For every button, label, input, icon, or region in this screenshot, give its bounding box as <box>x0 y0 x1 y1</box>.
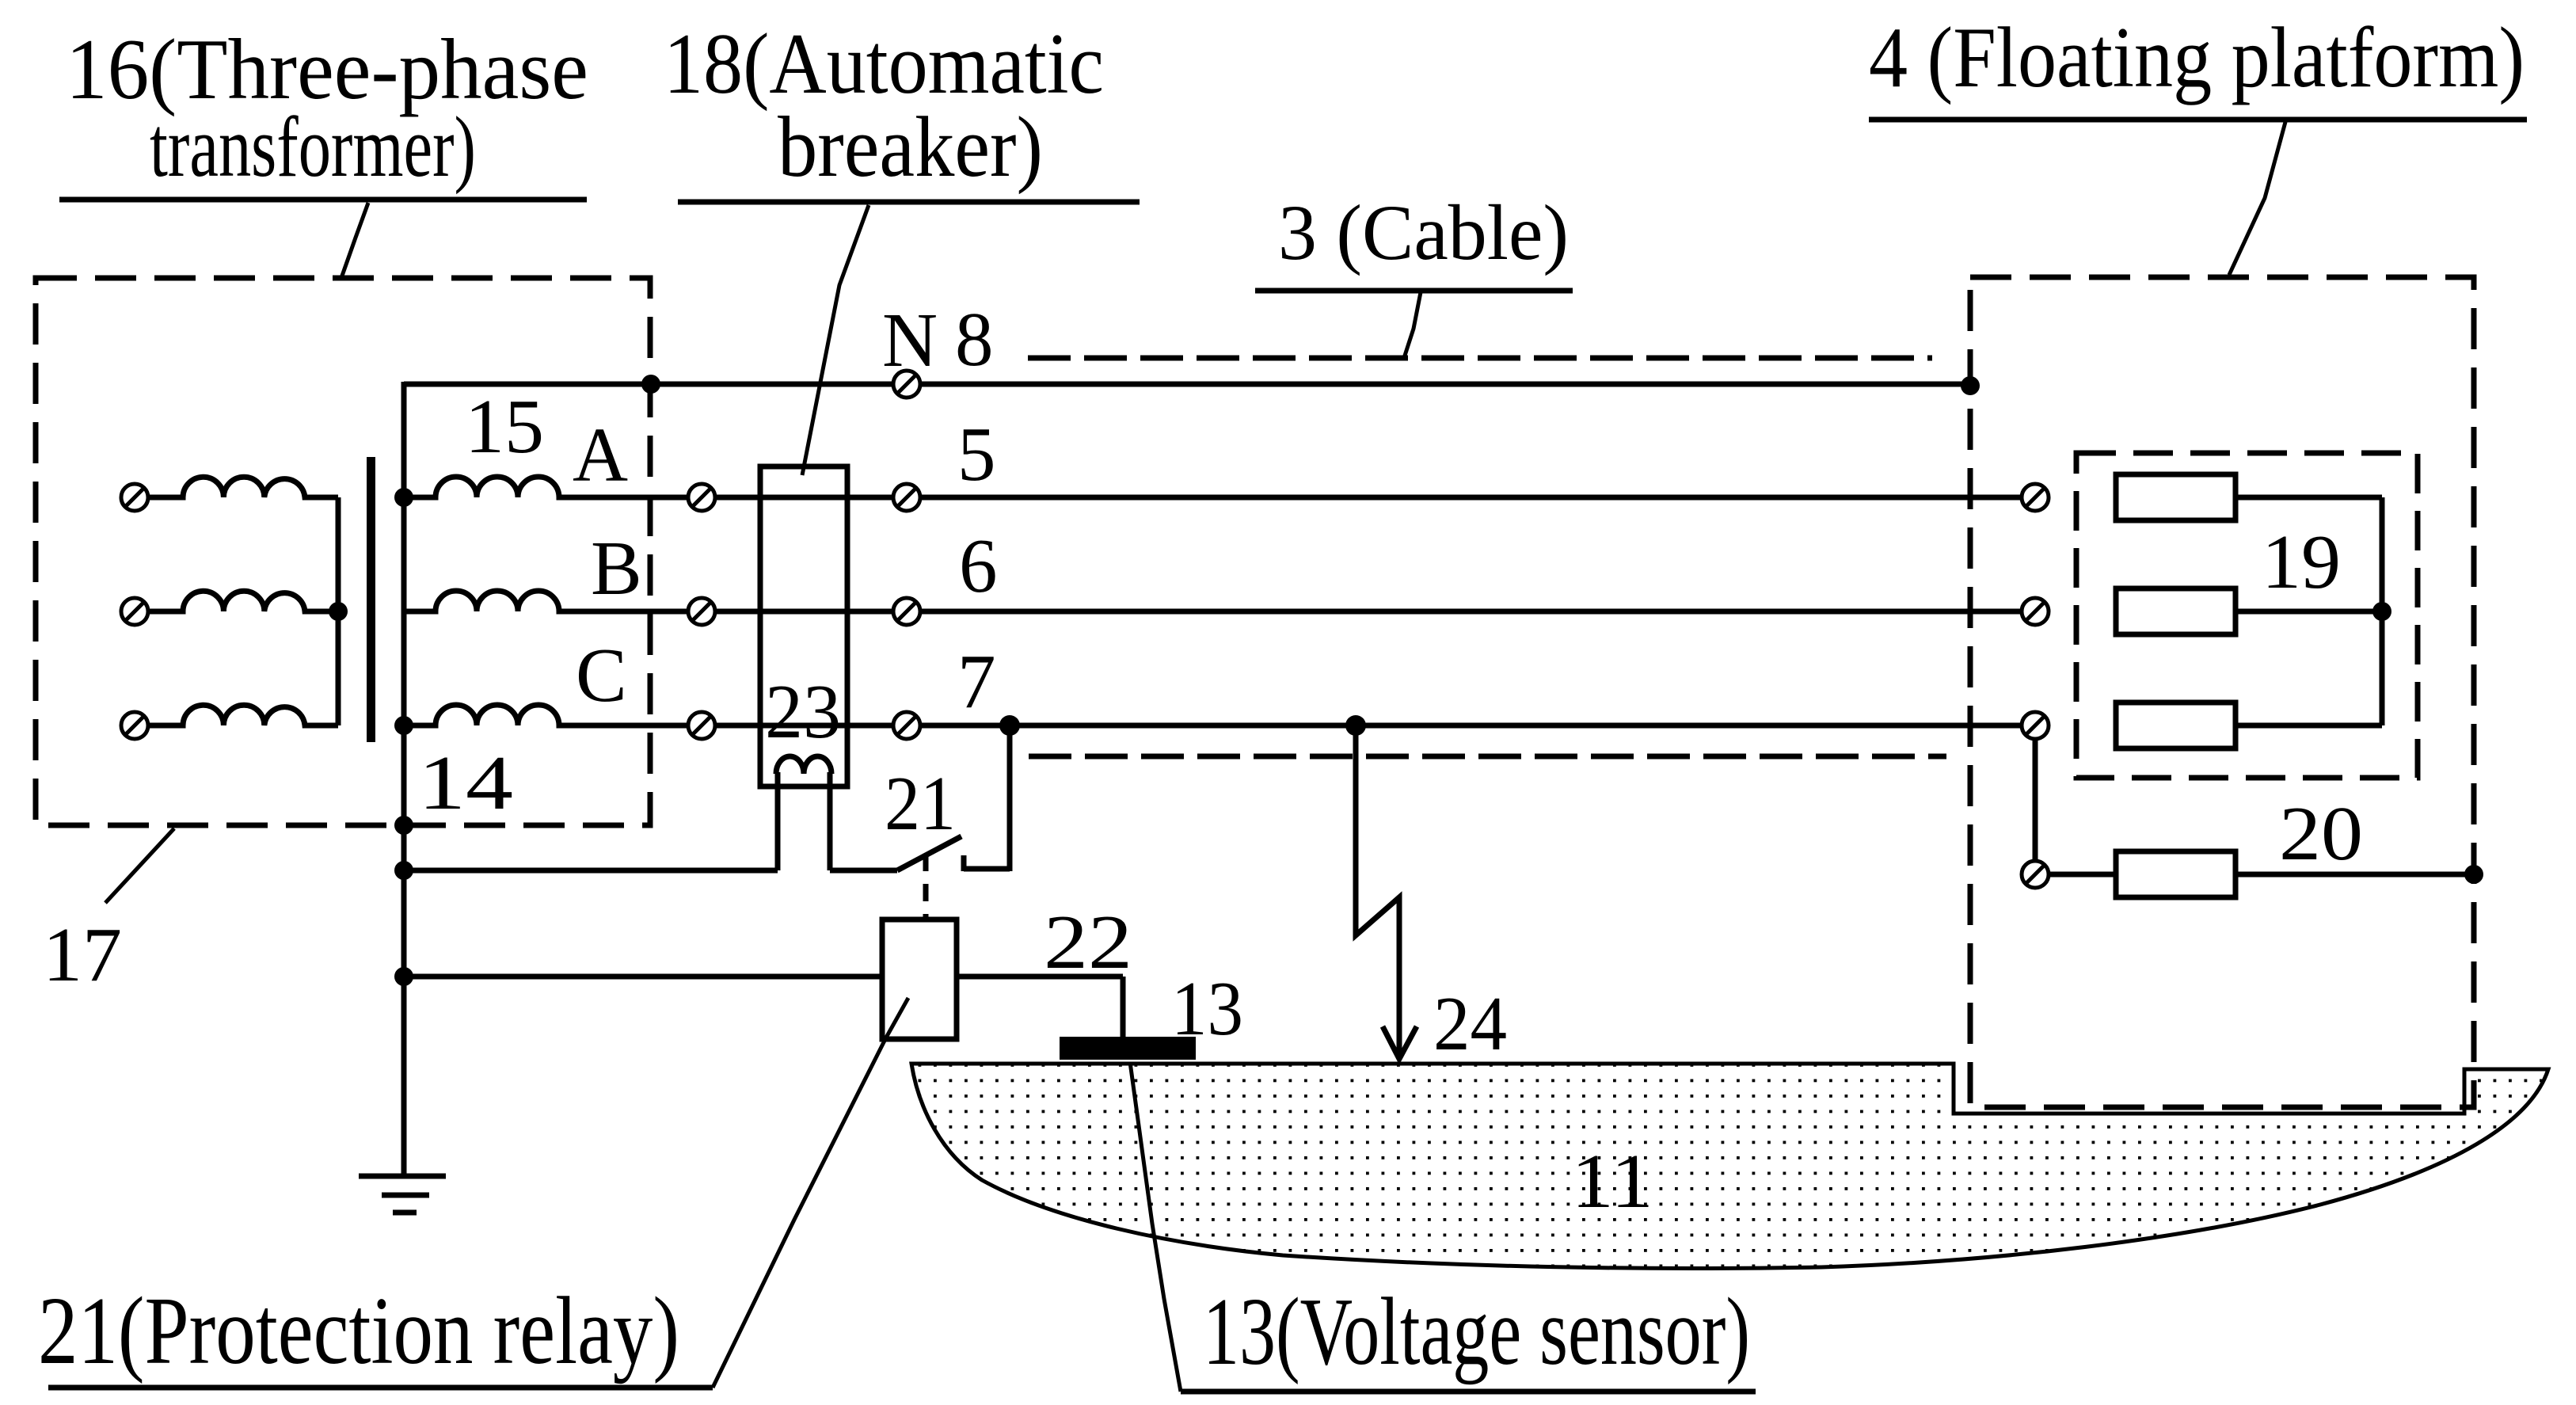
secondary winding phase C (coil) <box>404 705 690 725</box>
terminal platform 5 <box>2022 484 2049 511</box>
node line 7 switch tap <box>999 715 1020 736</box>
node load bus 19 <box>2372 602 2391 621</box>
svg-text:24: 24 <box>1433 981 1507 1066</box>
svg-text:21: 21 <box>885 761 956 846</box>
node N at platform edge <box>1961 376 1980 395</box>
svg-text:17: 17 <box>43 912 122 997</box>
switch actuator dashed link <box>923 854 929 920</box>
switch contact 21 arm <box>897 836 961 870</box>
wire phase line 5 <box>559 495 2022 501</box>
primary winding A (coil) <box>148 477 338 497</box>
load resistor 19a <box>2116 474 2235 520</box>
svg-text:transformer): transformer) <box>150 99 476 195</box>
wire resistor 19a to bus <box>2235 495 2382 501</box>
wire resistor 19c to bus <box>2235 723 2382 729</box>
svg-text:13(Voltage sensor): 13(Voltage sensor) <box>1203 1278 1750 1385</box>
svg-text:23: 23 <box>765 669 841 754</box>
load resistor 19b <box>2116 588 2235 634</box>
svg-text:19: 19 <box>2262 520 2341 604</box>
wire terminal link C to 20 <box>2033 737 2038 863</box>
cable 3 dashed run (top) <box>1028 356 1932 361</box>
svg-text:22: 22 <box>1044 900 1132 984</box>
terminal primary B <box>121 598 148 625</box>
svg-text:6: 6 <box>959 524 998 608</box>
wire terminal to resistor 20 <box>2049 872 2116 878</box>
switch fixed contact wire <box>964 866 1010 872</box>
node secondary A tap <box>394 488 413 507</box>
trip-coil wire left segment <box>404 868 778 874</box>
primary star bus wire <box>336 497 341 725</box>
svg-text:20: 20 <box>2279 791 2363 876</box>
wire from line 7 to switch <box>1007 725 1013 871</box>
terminal 5 <box>893 484 920 511</box>
automatic breaker box 18 <box>760 466 847 786</box>
wire resistor 19b to bus <box>2235 609 2382 615</box>
lightning strike 24 <box>1356 725 1399 1058</box>
trip coil left leg wire <box>775 772 781 870</box>
terminal secondary A <box>688 484 715 511</box>
protection relay box 21 <box>882 920 957 1039</box>
relay feed wire left segment <box>404 974 882 980</box>
trip coil right leg wire <box>828 772 833 870</box>
transformer dashed enclosure 16 <box>36 278 650 825</box>
load resistor 19c <box>2116 702 2235 748</box>
trip wire to switch <box>830 868 897 874</box>
transformer core bar <box>367 457 375 742</box>
svg-text:4 (Floating platform): 4 (Floating platform) <box>1869 10 2525 105</box>
secondary neutral bus wire <box>401 382 407 1176</box>
floating platform dashed enclosure 4 <box>1970 277 2474 1107</box>
node N at transformer box edge <box>641 375 660 394</box>
node relay wire junction <box>394 967 413 986</box>
label 13 (Voltage sensor) <box>1130 1062 1756 1392</box>
svg-text:14: 14 <box>418 741 513 825</box>
label 18 (Automatic breaker) <box>664 16 1140 475</box>
wire resistor 20 to platform edge <box>2235 872 2474 878</box>
terminal secondary B <box>688 598 715 625</box>
wire N rail <box>404 382 1970 387</box>
relay output wire 22 <box>957 974 1123 980</box>
node primary star point <box>329 602 348 621</box>
secondary winding phase B (coil) <box>404 591 690 611</box>
load group dashed box 19 <box>2076 453 2418 778</box>
load common bus wire <box>2380 497 2385 725</box>
switch fixed contact tick <box>961 855 967 871</box>
label 21 (Protection relay) <box>38 998 908 1388</box>
terminal N <box>893 371 920 398</box>
wire phase line 6 <box>559 609 2022 615</box>
node trip wire junction <box>394 861 413 880</box>
label 17 with leader <box>43 828 174 997</box>
node line 7 lightning tap <box>1345 715 1366 736</box>
label 4 (Floating platform) <box>1869 10 2527 275</box>
terminal secondary C <box>688 712 715 739</box>
terminal primary A <box>121 484 148 511</box>
primary winding C (coil) <box>148 705 338 725</box>
node secondary C tap <box>394 716 413 735</box>
wire phase line 7 <box>559 723 2022 729</box>
node 14 neutral at box edge <box>394 816 413 835</box>
terminal 7 <box>893 712 920 739</box>
svg-text:13: 13 <box>1171 966 1243 1051</box>
svg-text:15: 15 <box>465 384 544 469</box>
svg-text:11: 11 <box>1571 1139 1653 1224</box>
svg-text:5: 5 <box>957 412 996 497</box>
secondary winding 15 phase A (coil) <box>404 477 690 497</box>
svg-text:7: 7 <box>957 639 996 724</box>
terminal platform 6 <box>2022 598 2049 625</box>
svg-text:N: N <box>882 298 938 383</box>
cable 3 dashed run (bottom) <box>1029 754 1946 760</box>
label 16 (Three-phase transformer) <box>59 21 588 278</box>
ground symbol <box>359 1174 446 1179</box>
terminal platform 20 <box>2022 861 2049 888</box>
water 11 (stippled pond) <box>911 1064 2548 1268</box>
svg-text:21(Protection relay): 21(Protection relay) <box>38 1277 679 1384</box>
resistor 20 <box>2116 851 2235 897</box>
voltage sensor bar 13 <box>1060 1037 1196 1060</box>
svg-text:breaker): breaker) <box>778 99 1043 195</box>
sensor drop wire <box>1121 977 1126 1038</box>
terminal 6 <box>893 598 920 625</box>
primary winding B (coil) <box>148 591 338 611</box>
breaker trip coil 23 <box>776 756 831 774</box>
svg-text:3 (Cable): 3 (Cable) <box>1278 188 1569 276</box>
svg-text:A: A <box>573 413 628 497</box>
svg-text:C: C <box>576 633 627 718</box>
svg-text:18(Automatic: 18(Automatic <box>664 16 1104 112</box>
svg-text:B: B <box>591 526 642 611</box>
svg-text:8: 8 <box>955 297 994 382</box>
terminal primary C <box>121 712 148 739</box>
label 3 (Cable) <box>1255 188 1573 358</box>
node 20 at platform edge <box>2464 865 2483 884</box>
terminal platform 7 <box>2022 712 2049 739</box>
